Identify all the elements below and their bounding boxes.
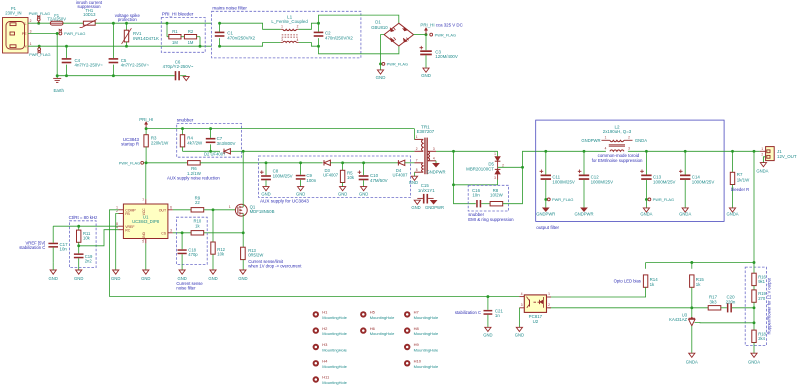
- svg-text:FB: FB: [125, 212, 130, 216]
- svg-text:UF4007: UF4007: [323, 172, 339, 177]
- svg-text:snubber: snubber: [177, 118, 194, 123]
- svg-text:470n/250V/X2: 470n/250V/X2: [325, 35, 353, 40]
- svg-text:GNDA: GNDA: [635, 138, 647, 143]
- mounting hole H7: [404, 310, 439, 320]
- svg-text:D1: D1: [375, 20, 381, 25]
- capacitor C17 10n: [48, 226, 68, 262]
- resistor R18 2k4: [752, 323, 767, 353]
- svg-text:L: L: [25, 22, 27, 26]
- note stabilization C: [455, 310, 481, 315]
- wire D5 cathode out: [498, 166, 524, 169]
- wire bridge plus: [414, 33, 428, 36]
- wire C10 to D4: [364, 162, 399, 164]
- ground GND under C19: [74, 270, 83, 281]
- transformer TR1 E387207: [414, 124, 436, 174]
- ground GND under bridge: [376, 64, 386, 80]
- mounting hole H5: [360, 310, 395, 320]
- svg-text:suppression: suppression: [77, 4, 101, 9]
- svg-text:MountingHole: MountingHole: [414, 348, 439, 353]
- resistor R14 1k: [643, 263, 658, 288]
- svg-text:for EMI/noise suppression: for EMI/noise suppression: [592, 158, 643, 163]
- svg-text:0R5/2W: 0R5/2W: [248, 253, 263, 258]
- diode D5 MBR20100CT: [466, 151, 504, 180]
- wire rail to J1: [724, 150, 760, 153]
- svg-text:OUT: OUT: [159, 208, 167, 212]
- capacitor C5: [109, 23, 150, 75]
- svg-text:U2: U2: [533, 319, 539, 324]
- ground GNDA under R18: [748, 353, 760, 364]
- resistor R10 1k: [191, 219, 204, 235]
- wire COMP: [110, 210, 119, 297]
- svg-text:10/2W: 10/2W: [490, 192, 504, 197]
- wire F1 to TH1: [63, 22, 83, 24]
- svg-text:H10: H10: [414, 359, 422, 364]
- ground GND under R12: [208, 270, 217, 281]
- svg-text:2: 2: [30, 19, 32, 23]
- ground GND under R13: [238, 270, 247, 281]
- svg-text:GNDPWR: GNDPWR: [425, 205, 444, 210]
- svg-text:100n: 100n: [306, 178, 316, 183]
- svg-text:2: 2: [502, 164, 504, 168]
- svg-text:1M: 1M: [172, 40, 178, 45]
- resistor R13 0R5/2W: [241, 247, 264, 270]
- wire J1 pin2 to GNDA: [763, 157, 765, 163]
- mounting hole H8: [404, 326, 439, 336]
- capacitor C14 1000M/25V: [679, 151, 714, 216]
- resistor R15 1k: [690, 263, 705, 308]
- svg-text:MountingHole: MountingHole: [322, 348, 347, 353]
- svg-text:3: 3: [30, 30, 32, 34]
- power label PRI_HI: [420, 22, 434, 34]
- earth triangle after C6: [183, 77, 189, 81]
- wire secondary to snubber: [454, 185, 476, 204]
- svg-text:stabilization C: stabilization C: [455, 310, 481, 315]
- resistor R12 10k: [211, 210, 226, 270]
- wire P1 pin L: [28, 22, 50, 24]
- ground GND under C21: [483, 327, 492, 337]
- svg-text:470n/250V/X2: 470n/250V/X2: [227, 35, 255, 40]
- svg-text:GND: GND: [49, 276, 58, 281]
- svg-text:470p: 470p: [188, 252, 198, 257]
- svg-text:4n7/Y2-250V~: 4n7/Y2-250V~: [75, 62, 104, 67]
- svg-text:5: 5: [142, 240, 144, 244]
- svg-text:MountingHole: MountingHole: [322, 315, 347, 320]
- capacitor C20 220n: [721, 295, 736, 313]
- wire C20 to divider: [732, 306, 755, 309]
- wire D2 to drain node: [231, 150, 245, 153]
- wire snubber bottom: [183, 150, 221, 153]
- wire R2 down to N: [197, 37, 202, 48]
- svg-text:4: 4: [116, 225, 118, 229]
- wire U2 emitter to GND: [515, 308, 524, 338]
- svg-text:4: 4: [297, 38, 299, 42]
- capacitor C6: [163, 59, 194, 80]
- resistor R4 4k7/2W: [180, 129, 203, 152]
- svg-text:KA431AZ: KA431AZ: [669, 317, 687, 322]
- svg-text:GND: GND: [141, 276, 150, 281]
- svg-text:L_Ferrite_Coupled: L_Ferrite_Coupled: [271, 19, 308, 24]
- capacitor C12 1000M/25V: [574, 151, 613, 216]
- svg-text:H2: H2: [322, 326, 328, 331]
- svg-text:H4: H4: [322, 359, 328, 364]
- svg-text:H8: H8: [414, 326, 420, 331]
- svg-text:1n/X1Y1: 1n/X1Y1: [418, 188, 435, 193]
- svg-text:10k: 10k: [217, 252, 225, 257]
- svg-text:startup R: startup R: [121, 141, 139, 146]
- svg-text:GND: GND: [359, 191, 368, 196]
- svg-text:MountingHole: MountingHole: [370, 315, 395, 320]
- wire secondary top: [436, 150, 498, 153]
- wire secondary parallel drop: [452, 151, 498, 186]
- wire RC jog: [79, 230, 119, 246]
- capacitor C10 47M/50V: [358, 163, 388, 187]
- svg-text:4: 4: [433, 157, 435, 161]
- wire VCC riser: [145, 163, 147, 199]
- svg-text:GNDA: GNDA: [640, 211, 652, 216]
- mounting hole H6: [360, 326, 395, 336]
- svg-text:10k: 10k: [83, 236, 91, 241]
- svg-text:8: 8: [416, 168, 418, 172]
- svg-text:H7: H7: [414, 310, 420, 315]
- svg-text:MountingHole: MountingHole: [322, 331, 347, 336]
- optocoupler U2 PC817: [519, 292, 551, 324]
- PWR_FLAG on PE: [59, 29, 85, 36]
- svg-text:MountingHole: MountingHole: [370, 331, 395, 336]
- diode D3 UF4007: [323, 160, 339, 177]
- svg-text:220n: 220n: [726, 299, 736, 304]
- ground GND under TR1 aux: [409, 172, 418, 185]
- svg-text:UF4007: UF4007: [393, 172, 409, 177]
- capacitor C4: [62, 46, 103, 75]
- fuse F1: [47, 13, 66, 25]
- svg-text:GNDA: GNDA: [756, 168, 768, 173]
- svg-text:H1: H1: [322, 310, 328, 315]
- resistor R3 220k/1W: [144, 129, 169, 163]
- svg-text:R1: R1: [172, 29, 178, 34]
- svg-text:GND: GND: [409, 180, 418, 185]
- wire VREF row: [53, 225, 118, 228]
- svg-text:GND: GND: [74, 276, 83, 281]
- wire opto cathode row: [548, 306, 708, 309]
- ground GND under C18: [177, 270, 186, 281]
- resistor R19 270: [752, 286, 767, 308]
- wire R1-R2: [181, 36, 184, 38]
- svg-text:1: 1: [605, 135, 607, 139]
- note AUX supply box: [259, 156, 411, 204]
- ground GNDPWR at C15: [425, 200, 444, 209]
- svg-text:1k: 1k: [650, 282, 655, 287]
- svg-text:PWR_FLAG: PWR_FLAG: [387, 62, 408, 67]
- resistor R6 1.2/1W: [187, 161, 202, 176]
- note Ct/Rt box: [69, 215, 98, 268]
- svg-text:PWR_FLAG: PWR_FLAG: [552, 197, 573, 202]
- wire U1 GND pin: [141, 243, 150, 280]
- svg-text:3: 3: [494, 176, 496, 180]
- earth symbol: [53, 76, 64, 93]
- wire drain row to TR1: [243, 150, 414, 152]
- mounting hole H1: [313, 310, 348, 320]
- svg-text:100M/25V: 100M/25V: [273, 174, 293, 179]
- svg-text:GND: GND: [238, 276, 247, 281]
- svg-text:AUX supply noise reduction: AUX supply noise reduction: [167, 175, 220, 180]
- capacitor C2: [314, 22, 354, 48]
- svg-text:1k/1W: 1k/1W: [737, 177, 750, 182]
- svg-text:1: 1: [494, 152, 496, 156]
- svg-text:GNDA: GNDA: [726, 211, 738, 216]
- svg-text:1000M/25V: 1000M/25V: [653, 179, 676, 184]
- svg-text:GND: GND: [483, 333, 492, 338]
- connector J1 12V_OUT: [760, 147, 797, 161]
- svg-text:1M: 1M: [188, 40, 194, 45]
- wire U3 ref: [695, 322, 755, 324]
- note PRI_HI bleeder box: [161, 12, 205, 53]
- transistor Q1 MDF18N50B: [235, 204, 274, 216]
- wire P1 pin N: [28, 45, 212, 48]
- svg-text:cca 325 V DC: cca 325 V DC: [436, 22, 463, 27]
- capacitor C19 2n2: [74, 246, 93, 270]
- wire R9 to gate: [204, 205, 236, 211]
- PWR_FLAG on L: [29, 11, 50, 24]
- note output filter box: [536, 120, 724, 230]
- wire cathode to rail: [523, 151, 536, 167]
- svg-text:470p/Y2-250V~: 470p/Y2-250V~: [163, 64, 194, 69]
- note inrush current suppression: [76, 0, 103, 9]
- wire U3 anode: [691, 326, 693, 353]
- svg-text:7: 7: [142, 198, 144, 202]
- svg-text:1000M/25V: 1000M/25V: [552, 179, 575, 184]
- wire aux row to box: [200, 161, 322, 164]
- earth bus horizontal: [56, 74, 175, 77]
- wire C16 to R8: [481, 203, 490, 205]
- svg-text:bleeder R: bleeder R: [731, 187, 749, 192]
- svg-text:1000M/25V: 1000M/25V: [591, 179, 614, 184]
- wire CS row: [173, 231, 243, 234]
- diode D4 UF4007: [393, 160, 409, 177]
- svg-text:GND: GND: [338, 191, 347, 196]
- svg-text:1: 1: [548, 292, 550, 296]
- svg-text:T2A/250V: T2A/250V: [47, 16, 66, 21]
- ground GNDA under J1: [756, 163, 768, 174]
- wire L1 pin2 to C2: [299, 23, 319, 29]
- resistor R16 9k1: [752, 263, 767, 286]
- mounting hole H10: [404, 359, 439, 369]
- svg-text:2: 2: [416, 147, 418, 151]
- ground GND at C15: [411, 200, 420, 210]
- svg-text:GND: GND: [111, 276, 120, 281]
- svg-text:EMI & ring suppression: EMI & ring suppression: [468, 217, 514, 222]
- thermistor TH1 10D13: [80, 8, 97, 27]
- capacitor C8 100M/25V: [260, 163, 293, 187]
- wire R14 to opto pin1: [548, 287, 645, 297]
- svg-text:GNDA: GNDA: [679, 211, 691, 216]
- wire 12V to divider: [753, 151, 756, 264]
- mounting hole H4: [313, 359, 348, 369]
- svg-text:7: 7: [416, 159, 418, 163]
- capacitor C7 3n3/800V: [206, 129, 236, 152]
- svg-text:GBU810: GBU810: [371, 25, 388, 30]
- ground GNDA under R7: [726, 208, 738, 217]
- wire aux row left: [146, 162, 187, 164]
- svg-text:3: 3: [628, 147, 630, 151]
- svg-text:GND: GND: [177, 276, 186, 281]
- resistor R8 10/2W: [490, 188, 504, 206]
- ground GND under C9: [296, 187, 305, 197]
- note current sense filter box: [176, 217, 207, 290]
- note snubber box: [177, 118, 242, 158]
- note snubber EMI box: [468, 185, 514, 222]
- svg-text:GND: GND: [261, 191, 270, 196]
- svg-text:PWR_FLAG: PWR_FLAG: [64, 31, 85, 36]
- svg-text:D2 UF4007: D2 UF4007: [204, 151, 226, 156]
- capacitor C11 1000M/25V: [536, 151, 575, 216]
- svg-text:1k: 1k: [195, 224, 200, 229]
- svg-text:GND: GND: [296, 191, 305, 196]
- svg-text:INR14D471K: INR14D471K: [133, 36, 159, 41]
- svg-text:GNDA: GNDA: [686, 360, 698, 365]
- wire C2 top to bridge: [319, 15, 399, 23]
- svg-text:3: 3: [521, 303, 523, 307]
- wire opto bias row: [646, 261, 754, 264]
- svg-text:270: 270: [758, 296, 766, 301]
- svg-text:3k3: 3k3: [709, 299, 717, 304]
- svg-text:PE: PE: [22, 32, 27, 36]
- svg-text:230V_IN: 230V_IN: [5, 10, 21, 15]
- svg-text:2k4: 2k4: [758, 336, 765, 341]
- capacitor C3 120M/400V: [420, 35, 458, 69]
- svg-text:GND: GND: [142, 232, 146, 240]
- wire OUT to R9: [173, 209, 191, 211]
- svg-text:H6: H6: [370, 326, 376, 331]
- svg-text:1000M/25V: 1000M/25V: [692, 179, 715, 184]
- svg-text:GND: GND: [208, 276, 217, 281]
- wire bridge minus: [379, 35, 384, 66]
- note voltage spike protection: [115, 13, 141, 22]
- wire rail after L2: [628, 150, 724, 153]
- svg-text:stabilization C: stabilization C: [19, 245, 45, 250]
- svg-text:10n: 10n: [472, 192, 480, 197]
- svg-text:2: 2: [548, 303, 550, 307]
- svg-text:1: 1: [229, 205, 231, 209]
- svg-text:47M/50V: 47M/50V: [370, 178, 388, 183]
- wire L row to L1: [220, 23, 281, 29]
- svg-text:GND: GND: [376, 75, 386, 80]
- PWR_FLAG on PRI_HI node: [430, 32, 456, 37]
- note current sense limit: [248, 259, 302, 269]
- svg-text:MountingHole: MountingHole: [414, 364, 439, 369]
- note VREF stabilization: [19, 240, 45, 250]
- svg-text:2n2: 2n2: [85, 258, 93, 263]
- wire FB to GND: [111, 214, 120, 281]
- capacitor C1: [215, 22, 256, 48]
- svg-text:6: 6: [170, 206, 172, 210]
- resistor R11 10k: [77, 226, 92, 246]
- svg-text:10k: 10k: [347, 175, 355, 180]
- mounting hole H2: [313, 326, 348, 336]
- wire PE bus vertical: [56, 34, 58, 76]
- wire P1 pin PE: [28, 32, 59, 35]
- svg-text:1: 1: [416, 135, 418, 139]
- svg-text:UC3843_DIP8: UC3843_DIP8: [132, 219, 160, 224]
- note cca 325 V DC: [436, 22, 463, 27]
- svg-text:MountingHole: MountingHole: [414, 315, 439, 320]
- mounting hole H9: [404, 342, 439, 352]
- svg-text:3: 3: [170, 229, 172, 233]
- note mains noise filter box: [212, 5, 361, 58]
- resistor R7 1k/1W bleeder: [730, 151, 750, 208]
- capacitor C9 100n: [296, 163, 317, 187]
- svg-text:H3: H3: [322, 342, 328, 347]
- note Rupper/Rlower box: [745, 267, 771, 345]
- svg-text:GNDA: GNDA: [748, 360, 760, 365]
- svg-text:R2: R2: [188, 29, 194, 34]
- ground GND under R5: [338, 187, 347, 197]
- svg-text:H11: H11: [322, 375, 330, 380]
- note UC3843 startup R: [121, 137, 139, 146]
- svg-text:220k/1W: 220k/1W: [151, 140, 169, 145]
- wire PRI_HI row: [145, 127, 415, 130]
- svg-text:3n3/800V: 3n3/800V: [217, 141, 236, 146]
- IC U1 UC3843: [116, 198, 173, 244]
- mounting hole H11: [313, 375, 348, 385]
- wire Q1 drain: [242, 151, 244, 207]
- svg-text:GNDPWR: GNDPWR: [426, 170, 445, 175]
- svg-text:2x190uH, Q=3: 2x190uH, Q=3: [603, 129, 632, 134]
- svg-text:4n7/Y2-250V~: 4n7/Y2-250V~: [121, 62, 150, 67]
- svg-text:GNDPWR: GNDPWR: [581, 138, 600, 143]
- capacitor C21 1n: [484, 297, 504, 328]
- wire D3 to R5: [330, 161, 344, 164]
- svg-text:4: 4: [521, 292, 523, 296]
- PWR_FLAG on bridge minus: [382, 62, 408, 67]
- svg-text:1: 1: [761, 147, 763, 151]
- svg-text:PWR_FLAG: PWR_FLAG: [119, 160, 140, 165]
- resistor R17 3k3: [708, 295, 721, 310]
- note Opto LED bias: [614, 279, 641, 284]
- wire divider to ref: [753, 308, 756, 324]
- svg-text:PRI_HI: PRI_HI: [420, 22, 434, 27]
- wire C2 bottom to bridge: [319, 46, 399, 54]
- svg-text:Rupper/Rlower for 12 V output: Rupper/Rlower for 12 V output: [766, 277, 771, 334]
- shunt regulator U3 KA431AZ: [669, 308, 695, 326]
- svg-text:N: N: [24, 45, 27, 49]
- ground GND under C17: [49, 262, 58, 280]
- svg-text:MountingHole: MountingHole: [322, 364, 347, 369]
- note AUX supply noise reduction: [167, 175, 220, 180]
- resistor R9 22: [191, 196, 204, 213]
- ground GND under C10: [359, 187, 368, 197]
- svg-text:when 1V drop -> overcurrent: when 1V drop -> overcurrent: [248, 264, 302, 269]
- svg-text:22: 22: [195, 200, 200, 205]
- svg-text:CS: CS: [161, 231, 167, 235]
- bridge rectifier D1 GBU810: [371, 20, 413, 46]
- svg-text:PWR_FLAG: PWR_FLAG: [653, 197, 674, 202]
- svg-text:PWR_FLAG: PWR_FLAG: [29, 52, 50, 57]
- wire L1 pin4 to C2: [299, 43, 319, 47]
- wire N row to L1: [220, 43, 281, 47]
- svg-text:Ct/Rt = 80 kHz: Ct/Rt = 80 kHz: [69, 215, 98, 220]
- svg-text:PRI_HI bleeder: PRI_HI bleeder: [162, 12, 194, 17]
- diode D2 UF4007: [204, 149, 230, 157]
- svg-text:Earth: Earth: [53, 88, 64, 93]
- note bleeder R: [731, 187, 749, 192]
- svg-text:MountingHole: MountingHole: [322, 380, 347, 385]
- svg-text:4: 4: [605, 147, 607, 151]
- svg-text:E387207: E387207: [417, 129, 435, 134]
- inductor L2 common-mode: [581, 124, 647, 151]
- svg-text:MDF18N50B: MDF18N50B: [250, 209, 275, 214]
- wire D4 to TR1 aux: [405, 162, 415, 164]
- svg-text:3: 3: [433, 147, 435, 151]
